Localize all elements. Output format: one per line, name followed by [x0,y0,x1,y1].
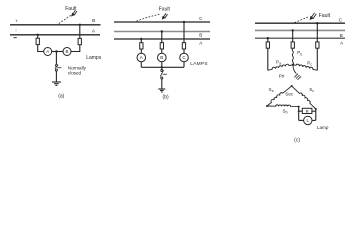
lamp B [63,48,71,56]
earth lead from star point [293,65,296,74]
fault bolt [72,10,77,16]
svg-text:B: B [160,55,163,60]
bus A [114,38,210,40]
wire R to right vertical [312,110,316,112]
svg-text:B: B [199,33,202,38]
R branch node [298,110,300,112]
node between lamps [55,50,57,52]
node on bus C [183,21,185,23]
svg-text:(c): (c) [294,137,300,143]
normally-closed pushbutton [161,70,163,72]
wire resistor to winding Pc [316,48,318,70]
winding Pc [293,64,317,70]
common return bus [141,66,184,68]
ground [52,81,61,83]
node on bus A [267,37,269,39]
secondary winding Sa [267,86,292,106]
lamp L [304,116,312,124]
wire bus C to resistor [316,23,318,42]
wire resistor to lamp B [71,45,80,52]
wire lamp A to bus [140,62,142,68]
bus A (negative) [10,34,100,36]
svg-text:Lamps: Lamps [86,55,102,61]
normally-closed pushbutton [55,64,57,66]
svg-text:(b): (b) [163,94,169,100]
resistor leg B [160,43,163,49]
crossing thickening on bus A [79,34,81,36]
svg-text:+: + [15,19,18,24]
wire to switch [161,67,163,69]
wire resistor to bus A [37,35,39,38]
lamp A [137,53,146,62]
wire bus B to resistor [292,30,294,42]
wire Sc end down [315,109,317,120]
Sc end node [315,108,317,110]
svg-text:A: A [46,49,49,54]
resistor leg A [140,43,143,49]
wire Sb end down [298,107,300,121]
fault bolt [310,13,316,20]
wire resistor to lamp A [140,49,142,53]
secondary winding Sb [267,105,299,107]
delta apex node [291,85,293,87]
secondary winding Sc [292,86,316,109]
wire bus C to resistor [183,22,185,43]
node on bus B [79,24,81,26]
- polarity mark [14,37,17,39]
resistor R [302,108,312,113]
wire mid node down [55,52,57,65]
bus C [255,22,345,24]
svg-text:Lamp: Lamp [317,125,329,130]
resistor leg a [266,42,269,48]
svg-text:B: B [340,33,343,38]
wire switch to ground [161,79,163,89]
fault leader (dashed) [137,14,160,21]
lamp C [180,53,189,62]
bus B (light) [114,31,210,33]
wire lamp A to resistor [38,45,44,52]
wire lamp L to right [312,119,316,121]
lamp B [158,53,167,62]
wire to resistor R [299,110,303,112]
resistor (left leg) [36,38,39,44]
wire bus A to resistor [267,38,269,42]
fault leader (dashed) [59,15,71,23]
faint mark between buses [15,29,17,32]
wire resistor to lamp B [161,49,163,53]
resistor leg C [182,43,185,49]
svg-text:B: B [92,18,95,24]
svg-text:LAMPS: LAMPS [190,61,208,67]
ground [158,88,165,90]
node on bus C [316,22,318,24]
bus C [114,21,210,23]
fault bolt [162,13,167,19]
wire resistor to lamp C [183,49,185,53]
resistor leg c [316,42,319,48]
fault leader (dashed) [295,17,309,23]
bus B (light) [255,29,345,31]
svg-text:(a): (a) [58,94,64,100]
wire lamp B to bus [161,62,163,68]
svg-text:Fault: Fault [159,6,171,12]
svg-text:R: R [306,109,309,114]
svg-text:B: B [65,49,68,54]
svg-text:closed: closed [68,70,82,75]
wire switch to ground [55,71,57,82]
svg-text:A: A [140,55,143,60]
bus A [255,37,345,39]
winding Pa [268,64,293,70]
svg-text:Sec: Sec [285,92,294,97]
delta left node [266,105,268,107]
winding Pb (vertical) [292,48,293,64]
node on bus A [140,38,142,40]
svg-text:Pri: Pri [279,73,285,78]
wire lamp C to bus [183,62,185,68]
resistor (right leg) [78,38,81,44]
node on bus A [37,34,39,36]
wire bus A to resistor [140,39,142,43]
wire resistor to winding Pa [267,48,269,70]
Sb end node [298,106,300,108]
node on bus B [161,30,163,32]
lamp A [44,48,52,56]
wire bus B to resistor [161,32,163,43]
wire lamp B to lamp A [52,51,63,53]
resistor leg b [291,42,294,48]
node on bus B [292,29,294,31]
svg-text:Fault: Fault [319,13,331,19]
bus B (positive) [10,24,101,26]
wire bus B to resistor [79,25,81,39]
earth hatches [294,74,298,78]
node on return bus [161,66,163,68]
star point node [292,63,294,65]
wire to lamp L [299,119,304,121]
